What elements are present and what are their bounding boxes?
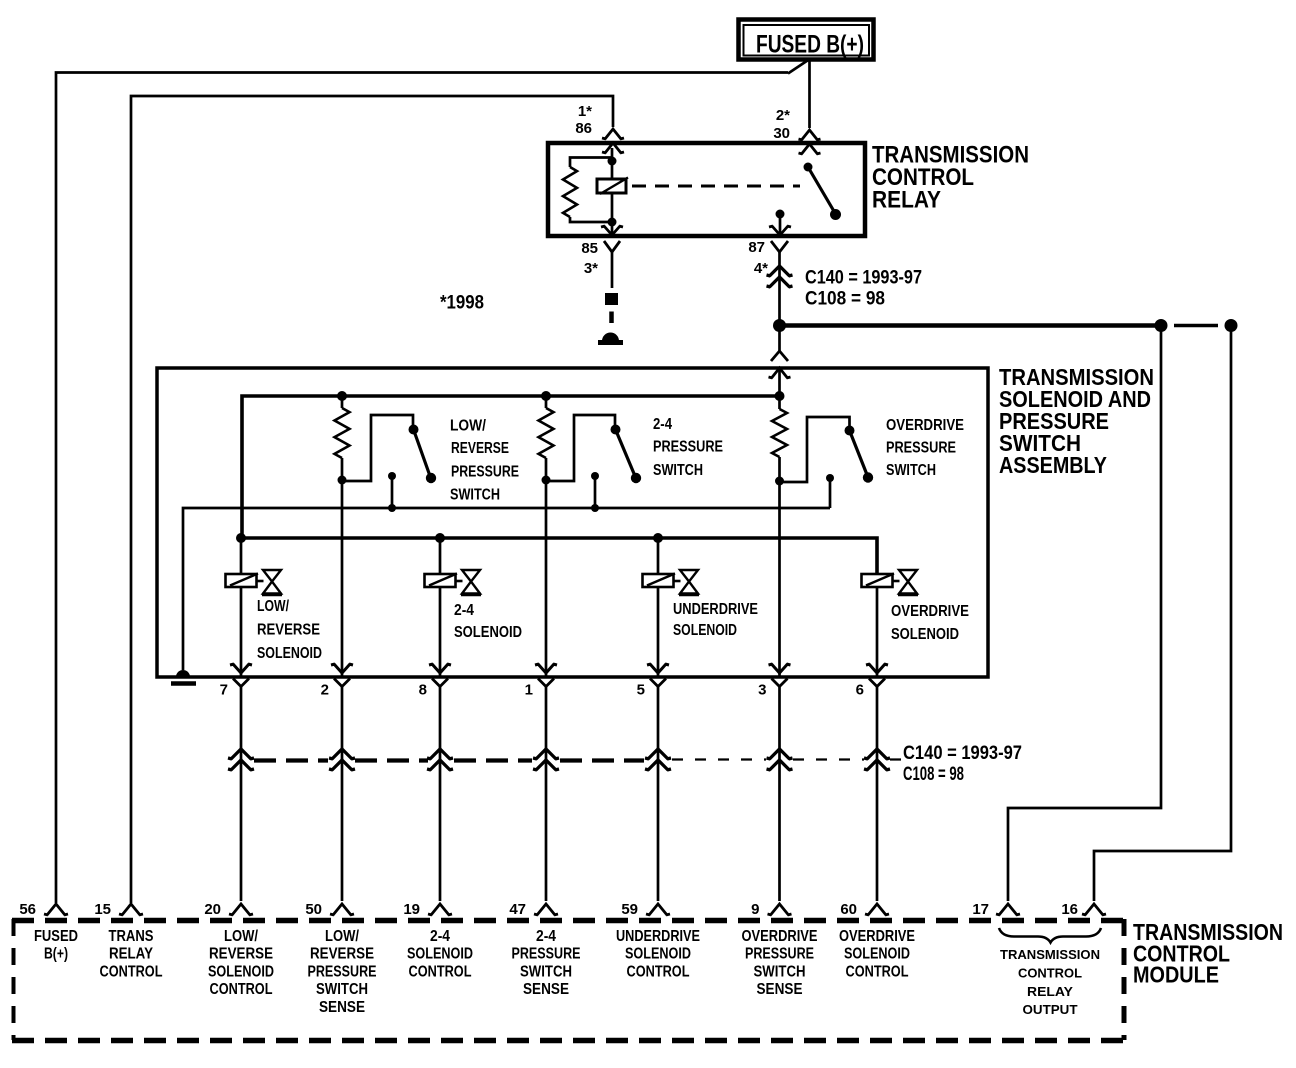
svg-text:UNDERDRIVE: UNDERDRIVE xyxy=(673,601,758,618)
svg-text:B(+): B(+) xyxy=(44,946,68,963)
ground G1 (below relay pin 85) xyxy=(598,333,623,343)
node splice (pin 85, 1998) xyxy=(605,293,618,305)
svg-text:C140 = 1993-97: C140 = 1993-97 xyxy=(903,743,1022,764)
relay pin 85 internal arrow xyxy=(601,226,623,235)
label C140 = 1993-97 (lower) xyxy=(903,743,1022,785)
TCM pin 9 connector chevron xyxy=(768,904,792,915)
svg-text:CONTROL: CONTROL xyxy=(100,963,163,980)
label TCM pin 9 function xyxy=(742,928,818,998)
wire switch sense bus to ground xyxy=(183,508,830,670)
wire entry to top bus xyxy=(778,368,781,396)
resistor R1 (low/reverse) xyxy=(335,408,350,458)
connector C140/C108 in-line pin 5 xyxy=(645,749,671,759)
pin 1*/86 labels xyxy=(575,103,592,137)
svg-text:6: 6 xyxy=(856,682,864,699)
wire fused B+ to relay pin 30 xyxy=(808,59,811,128)
svg-text:RELAY: RELAY xyxy=(872,187,941,214)
svg-text:C108 = 98: C108 = 98 xyxy=(805,289,885,310)
node bus tap R1 xyxy=(337,391,347,401)
assembly pin 5 female connector xyxy=(650,679,666,687)
svg-text:SWITCH: SWITCH xyxy=(754,963,806,980)
node bus tap solenoid 3 xyxy=(653,533,663,543)
svg-text:TRANS: TRANS xyxy=(109,928,154,945)
node relay pin 87 contact xyxy=(776,210,785,219)
node relay coil top junction xyxy=(608,157,617,166)
assembly pin 6 exit arrow xyxy=(866,664,888,673)
wire right vertical 1 (to TCM pin 17) xyxy=(1008,331,1161,901)
svg-text:MODULE: MODULE xyxy=(1133,962,1219,988)
svg-text:2: 2 xyxy=(321,682,329,699)
assembly pin 3 exit arrow xyxy=(769,664,791,673)
svg-text:FUSED B(+): FUSED B(+) xyxy=(756,31,864,59)
TCM pin 19 connector chevron xyxy=(428,904,452,915)
svg-text:CONTROL: CONTROL xyxy=(1018,966,1082,981)
svg-text:SWITCH: SWITCH xyxy=(886,462,936,479)
svg-text:LOW/: LOW/ xyxy=(325,928,359,945)
svg-text:15: 15 xyxy=(94,901,111,918)
connector C140/C108 in-line pin 3 xyxy=(767,749,793,759)
svg-text:87: 87 xyxy=(748,239,765,256)
svg-text:FUSED: FUSED xyxy=(34,928,78,945)
svg-text:59: 59 xyxy=(621,901,638,918)
assembly pin 1 exit arrow xyxy=(535,664,557,673)
svg-text:UNDERDRIVE: UNDERDRIVE xyxy=(616,928,700,945)
svg-text:16: 16 xyxy=(1061,901,1078,918)
solenoid L2 2-4 xyxy=(425,570,482,595)
connector C140/C108 in-line pin 8 xyxy=(427,749,453,759)
pin 87/4* labels xyxy=(748,239,768,277)
low/reverse pressure switch S1 xyxy=(342,415,436,508)
resistor inside relay (parallel with coil) xyxy=(563,158,611,223)
svg-text:RELAY: RELAY xyxy=(1027,984,1073,999)
transmission control module box (dashed) xyxy=(12,919,1124,1041)
svg-text:19: 19 xyxy=(403,901,420,918)
wire top bus (supply) xyxy=(242,396,780,538)
svg-text:PRESSURE: PRESSURE xyxy=(886,440,956,457)
assembly pin 2 exit arrow xyxy=(331,664,353,673)
relay pin 87 internal arrow xyxy=(769,226,791,235)
label TCM pin 56 function xyxy=(34,928,78,963)
wire TCM pin 15 to relay pin 86 xyxy=(131,96,613,903)
svg-text:3: 3 xyxy=(758,682,766,699)
wire relay output down to assembly xyxy=(778,331,781,352)
node splice relay output xyxy=(773,319,786,332)
connector C140/C108 in-line pin 2 xyxy=(329,749,355,759)
svg-text:SWITCH: SWITCH xyxy=(653,462,703,479)
resistor R2 (2-4) xyxy=(539,408,554,458)
svg-text:5: 5 xyxy=(637,682,645,699)
node junction right wire 2 xyxy=(1225,319,1238,332)
wire low/reverse sense vertical (pin 2) xyxy=(341,396,344,676)
relay coil L (box with diagonal) xyxy=(597,178,628,195)
svg-text:1*: 1* xyxy=(578,103,592,120)
node R3 bottom junction xyxy=(775,477,784,486)
pin 2*/30 labels xyxy=(773,107,790,142)
node sense tap S2 xyxy=(591,504,599,512)
pin 30 connector chevrons xyxy=(799,130,821,154)
wire fused B+ diagonal tap xyxy=(788,60,809,74)
svg-text:PRESSURE: PRESSURE xyxy=(653,439,723,456)
svg-text:2*: 2* xyxy=(776,107,790,124)
assembly entry female connector xyxy=(771,351,788,361)
label low/reverse solenoid xyxy=(257,598,322,662)
svg-text:SOLENOID: SOLENOID xyxy=(844,946,910,963)
svg-text:OVERDRIVE: OVERDRIVE xyxy=(886,417,964,434)
node FUSED B(+) box xyxy=(739,20,874,60)
svg-text:CONTROL: CONTROL xyxy=(210,981,273,998)
transmission solenoid and pressure switch assembly box xyxy=(157,368,988,677)
connector C140/C108 in-line pin 6 xyxy=(864,749,890,759)
brace pins 17-16 xyxy=(999,928,1101,943)
label transmission control relay output xyxy=(1000,947,1100,1017)
svg-text:3*: 3* xyxy=(584,260,598,277)
svg-text:ASSEMBLY: ASSEMBLY xyxy=(999,452,1107,478)
wire underdrive solenoid vertical (pin 5) xyxy=(657,538,660,676)
label overdrive solenoid xyxy=(891,603,969,643)
svg-text:47: 47 xyxy=(509,901,526,918)
svg-text:SENSE: SENSE xyxy=(757,981,803,998)
svg-text:86: 86 xyxy=(575,120,592,137)
overdrive pressure switch S3 xyxy=(780,417,874,508)
wire 2-4 solenoid vertical (pin 8) xyxy=(439,538,442,676)
node bus tap solenoid 2 xyxy=(435,533,445,543)
label 2-4 pressure switch xyxy=(653,416,723,479)
TCM pin 47 connector chevron xyxy=(534,904,558,915)
svg-text:2-4: 2-4 xyxy=(653,416,672,433)
svg-text:C140 = 1993-97: C140 = 1993-97 xyxy=(805,268,922,289)
connector C140/C108 in-line (pin 87) xyxy=(767,266,793,276)
svg-text:*1998: *1998 xyxy=(440,293,484,314)
svg-text:PRESSURE: PRESSURE xyxy=(451,464,519,481)
relay armature dashed link xyxy=(632,185,800,188)
node sense tap S1 xyxy=(388,504,396,512)
svg-text:1: 1 xyxy=(525,682,533,699)
svg-text:LOW/: LOW/ xyxy=(224,928,258,945)
node relay pin 30 contact xyxy=(804,163,813,172)
assembly pin 8 exit arrow xyxy=(429,664,451,673)
svg-text:CONTROL: CONTROL xyxy=(409,963,472,980)
resistor R3 (overdrive) xyxy=(772,409,787,457)
label TCM pin 50 function xyxy=(308,928,377,1016)
wire splice to right verticals xyxy=(785,323,1218,328)
pin 87 female connector xyxy=(771,241,788,252)
svg-text:SENSE: SENSE xyxy=(319,999,365,1016)
label underdrive solenoid xyxy=(673,601,758,639)
svg-text:OVERDRIVE: OVERDRIVE xyxy=(891,603,969,620)
svg-text:LOW/: LOW/ xyxy=(257,598,289,615)
wire pin 85 to ground xyxy=(611,252,614,288)
assembly pin 8 female connector xyxy=(432,679,448,687)
label TCM pin 60 function xyxy=(839,928,915,980)
svg-text:56: 56 xyxy=(19,901,36,918)
svg-text:17: 17 xyxy=(972,901,989,918)
wire assembly pin 6 to TCM xyxy=(876,686,879,901)
TCM pin 17 connector chevron xyxy=(996,904,1020,915)
svg-text:SOLENOID: SOLENOID xyxy=(208,963,274,980)
solenoid L1 low/reverse xyxy=(226,570,283,595)
svg-text:C108 = 98: C108 = 98 xyxy=(903,764,964,785)
node bus tap solenoid 1 xyxy=(236,533,246,543)
2-4 pressure switch S2 xyxy=(546,415,641,508)
relay switch blade xyxy=(808,167,841,220)
label TCM pin 59 function xyxy=(616,928,700,980)
solenoid L4 overdrive xyxy=(862,570,919,595)
svg-text:OUTPUT: OUTPUT xyxy=(1023,1002,1078,1017)
assembly pin 7 exit arrow xyxy=(230,664,252,673)
solenoid L3 underdrive xyxy=(643,570,700,595)
svg-text:20: 20 xyxy=(204,901,221,918)
svg-text:SOLENOID: SOLENOID xyxy=(257,645,322,662)
wire assembly pin 7 to TCM xyxy=(240,686,243,901)
svg-text:PRESSURE: PRESSURE xyxy=(745,946,814,963)
assembly entry male chevron xyxy=(769,368,791,378)
svg-text:30: 30 xyxy=(773,125,790,142)
svg-text:OVERDRIVE: OVERDRIVE xyxy=(839,928,915,945)
svg-text:RELAY: RELAY xyxy=(109,946,153,963)
wire TCM pin 56 to fused B+ (left vertical + top horizontal) xyxy=(56,73,788,904)
label TCM pin 47 function xyxy=(512,928,581,998)
svg-text:SWITCH: SWITCH xyxy=(450,487,500,504)
svg-text:8: 8 xyxy=(419,682,427,699)
svg-text:2-4: 2-4 xyxy=(536,928,556,945)
svg-text:85: 85 xyxy=(581,240,598,257)
wire assembly pin 8 to TCM xyxy=(439,686,442,901)
wire 2-4 sense vertical (pin 1) xyxy=(545,396,548,676)
wire connector row dashed (left) xyxy=(254,758,644,762)
svg-text:SWITCH: SWITCH xyxy=(316,981,368,998)
svg-text:CONTROL: CONTROL xyxy=(627,963,690,980)
node bus end (relay feed) xyxy=(775,391,785,401)
TCM pin 56 connector chevron xyxy=(44,904,68,915)
wire assembly pin 3 to TCM xyxy=(778,686,781,901)
svg-text:LOW/: LOW/ xyxy=(450,418,486,435)
svg-text:SOLENOID: SOLENOID xyxy=(625,946,691,963)
TCM pin 15 connector chevron xyxy=(119,904,143,915)
label low/reverse pressure switch xyxy=(450,418,519,504)
svg-text:CONTROL: CONTROL xyxy=(846,963,909,980)
svg-text:50: 50 xyxy=(305,901,322,918)
svg-text:SOLENOID: SOLENOID xyxy=(407,946,473,963)
TCM pin 20 connector chevron xyxy=(229,904,253,915)
wire pin 87 down xyxy=(778,252,781,320)
node R1 bottom junction xyxy=(338,476,347,485)
TCM pin 59 connector chevron xyxy=(646,904,670,915)
pin 85 female connector xyxy=(604,241,620,252)
wire assembly pin 2 to TCM xyxy=(341,686,344,901)
wire overdrive sense vertical (pin 3) xyxy=(778,396,781,676)
svg-text:PRESSURE: PRESSURE xyxy=(512,946,581,963)
wire overdrive solenoid vertical (pin 6) xyxy=(876,587,879,676)
svg-text:4*: 4* xyxy=(754,260,768,277)
svg-text:7: 7 xyxy=(220,682,228,699)
connector C140/C108 in-line pin 1 xyxy=(533,749,559,759)
wire solenoid supply bus xyxy=(241,538,877,574)
label 2-4 solenoid xyxy=(454,602,522,641)
svg-text:TRANSMISSION: TRANSMISSION xyxy=(1000,947,1100,962)
wire right vertical 2 (to TCM pin 16) xyxy=(1094,331,1231,901)
svg-text:OVERDRIVE: OVERDRIVE xyxy=(742,928,818,945)
svg-text:2-4: 2-4 xyxy=(454,602,474,619)
assembly pin 3 female connector xyxy=(772,679,788,687)
label TCM pin 20 function xyxy=(208,928,274,998)
assembly pin 1 female connector xyxy=(538,679,554,687)
svg-text:REVERSE: REVERSE xyxy=(451,440,509,457)
label relay title xyxy=(872,142,1029,214)
label TCM pin 19 function xyxy=(407,928,473,980)
node bus tap R2 xyxy=(541,391,551,401)
wire pin 87 internal xyxy=(779,214,782,236)
wire connector row dashed (right) xyxy=(672,758,901,760)
svg-text:REVERSE: REVERSE xyxy=(209,946,273,963)
transmission control relay K1 box xyxy=(548,143,865,236)
label overdrive pressure switch xyxy=(886,417,964,479)
svg-text:REVERSE: REVERSE xyxy=(310,946,374,963)
relay coil wire from pin 86 xyxy=(611,148,614,236)
wire low/reverse solenoid vertical (pin 7) xyxy=(240,538,243,676)
node junction right wire 1 xyxy=(1155,319,1168,332)
label TCM title xyxy=(1133,919,1283,988)
svg-text:9: 9 xyxy=(751,901,759,918)
wire assembly pin 5 to TCM xyxy=(657,686,660,901)
pin 85/3* labels xyxy=(581,240,598,277)
svg-text:SOLENOID: SOLENOID xyxy=(891,626,959,643)
assembly pin 6 female connector xyxy=(869,679,885,687)
svg-text:60: 60 xyxy=(840,901,857,918)
assembly pin 7 female connector xyxy=(233,679,249,687)
assembly pin 2 female connector xyxy=(334,679,350,687)
node R2 bottom junction xyxy=(542,476,551,485)
TCM pin 50 connector chevron xyxy=(330,904,354,915)
label C140 = 1993-97 (upper) xyxy=(805,268,922,310)
label TCM pin 15 function xyxy=(100,928,163,980)
svg-text:SENSE: SENSE xyxy=(523,981,569,998)
TCM pin 16 connector chevron xyxy=(1082,904,1106,915)
svg-text:SOLENOID: SOLENOID xyxy=(454,624,522,641)
svg-text:2-4: 2-4 xyxy=(430,928,450,945)
svg-text:REVERSE: REVERSE xyxy=(257,622,320,639)
connector C140/C108 in-line pin 7 xyxy=(228,749,254,759)
svg-text:PRESSURE: PRESSURE xyxy=(308,963,377,980)
ground G2 (assembly internal) xyxy=(171,670,196,684)
wire assembly pin 1 to TCM xyxy=(545,686,548,901)
node relay coil bottom junction xyxy=(608,218,617,227)
svg-text:SOLENOID: SOLENOID xyxy=(673,622,737,639)
assembly pin 5 exit arrow xyxy=(647,664,669,673)
pin 86 connector chevrons xyxy=(602,129,624,153)
TCM pin 60 connector chevron xyxy=(865,904,889,915)
svg-text:SWITCH: SWITCH xyxy=(520,963,572,980)
wire splice to ground (dashed) xyxy=(609,312,614,324)
label assembly title xyxy=(999,364,1154,478)
